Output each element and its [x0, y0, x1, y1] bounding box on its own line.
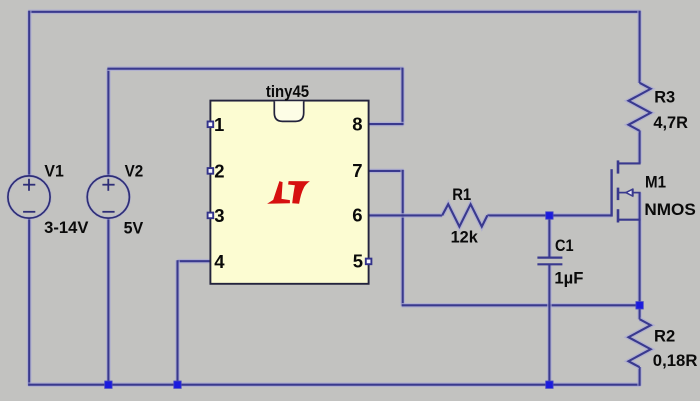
wire junction to R2 top [637, 304, 642, 319]
voltage source V2 [87, 176, 129, 218]
svg-text:R3: R3 [654, 89, 675, 107]
pin 2 open terminal [208, 168, 214, 174]
wire source to R2 junction [637, 193, 642, 307]
svg-text:C1: C1 [555, 237, 574, 255]
junction C1/ground rail [546, 381, 553, 388]
transistor M1 gate bar [610, 169, 612, 216]
wire from pin7 [369, 169, 404, 174]
IC notch (pin1 index) [274, 101, 303, 121]
svg-text:4: 4 [214, 251, 225, 272]
M1 drain stub [618, 162, 641, 164]
wire pin4 drop [175, 260, 180, 386]
wire R3 to drain [637, 130, 642, 163]
svg-text:V1: V1 [44, 163, 63, 181]
svg-text:3-14V: 3-14V [44, 219, 88, 237]
svg-text:5V: 5V [124, 220, 144, 238]
wire V2 to pin8 horizontal [107, 66, 403, 71]
svg-text:7: 7 [352, 160, 362, 181]
V1 minus sign [23, 211, 35, 213]
svg-text:12k: 12k [451, 228, 479, 246]
resistor R1 zigzag [442, 204, 487, 226]
LT logo (Linear Technology) [267, 181, 310, 204]
svg-text:1µF: 1µF [554, 269, 583, 287]
wire junction to C1 top [547, 214, 552, 257]
V1 plus sign [23, 179, 35, 191]
resistor R2 zigzag [629, 319, 651, 367]
wire C1 bottom to ground rail [547, 265, 552, 386]
svg-text:6: 6 [352, 205, 362, 226]
IC U1 body (tiny45, ATtiny45 DIP-8) [210, 101, 368, 284]
wire from pin4 [178, 259, 211, 264]
svg-text:NMOS: NMOS [644, 201, 695, 219]
svg-text:V2: V2 [125, 162, 144, 180]
wire V2 top lead [106, 69, 111, 176]
svg-text:R1: R1 [452, 186, 471, 204]
wire pin6 to R1 [369, 213, 443, 218]
junction V2/ground rail [105, 381, 112, 388]
V2 plus sign [102, 179, 114, 191]
wire R2 bottom lead [637, 367, 642, 386]
pin 3 open terminal [208, 213, 214, 219]
svg-text:1: 1 [214, 114, 224, 135]
M1 body stub with arrow [618, 189, 641, 196]
wire R1 to gate (node G) [487, 213, 611, 218]
M1 channel segments [617, 160, 620, 222]
junction node G (R1/C1/gate) [546, 212, 553, 219]
svg-text:3: 3 [214, 205, 224, 226]
junction source/R2 [636, 302, 643, 309]
svg-text:2: 2 [214, 161, 224, 182]
wire V2 bottom lead [106, 218, 111, 385]
wire pin8 drop [400, 68, 405, 125]
capacitor C1 plates [537, 258, 562, 265]
wire V1 top lead [27, 11, 32, 176]
wire bottom ground rail [28, 382, 640, 387]
wire mid horizontal (pin7 to source) [402, 303, 641, 308]
svg-text:5: 5 [353, 251, 363, 272]
voltage source V1 [8, 176, 50, 218]
V2 minus sign [102, 211, 114, 213]
wire V1 bottom lead [27, 218, 32, 385]
svg-text:8: 8 [352, 113, 362, 134]
wire R3 top lead [637, 11, 642, 83]
pin 5 open terminal [366, 259, 372, 265]
wire pin7 drop [400, 170, 405, 306]
svg-text:0,18R: 0,18R [653, 352, 698, 370]
svg-text:M1: M1 [645, 174, 666, 192]
svg-text:tiny45: tiny45 [266, 83, 309, 101]
M1 source stub [618, 219, 641, 221]
svg-text:R2: R2 [654, 327, 675, 345]
wire into pin8 [369, 122, 404, 127]
svg-text:4,7R: 4,7R [653, 114, 688, 132]
wire top rail (V1+ to R3) [28, 10, 640, 15]
pin 1 open terminal [208, 122, 214, 128]
resistor R3 zigzag [629, 83, 651, 131]
junction pin4/ground rail [174, 381, 181, 388]
